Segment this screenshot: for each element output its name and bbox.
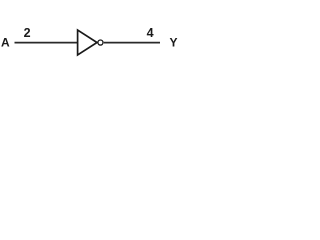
- wire inverter to Y: [104, 42, 160, 44]
- svg-text:A: A: [1, 36, 10, 50]
- svg-text:2: 2: [24, 26, 31, 40]
- wire input A to inverter: [15, 42, 79, 44]
- inverter U1 triangle: [78, 30, 97, 55]
- inverter bubble: [98, 40, 103, 45]
- svg-text:Y: Y: [170, 36, 178, 50]
- svg-text:4: 4: [147, 26, 154, 40]
